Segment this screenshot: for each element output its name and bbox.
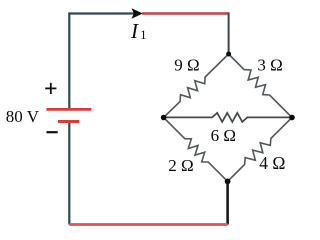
svg-text:4 Ω: 4 Ω [259, 153, 285, 173]
svg-text:9 Ω: 9 Ω [174, 55, 199, 74]
battery long plate (+) [46, 108, 91, 111]
battery - sign [47, 131, 58, 133]
svg-text:2 Ω: 2 Ω [168, 156, 193, 175]
wire top-left (from battery + up and right toward arrow) [69, 14, 136, 111]
resistor 9 ohm (left node to top node) [164, 54, 229, 118]
wire right vertical (top corner down to node A) [228, 12, 230, 54]
svg-text:80 V: 80 V [6, 107, 40, 126]
svg-text:1: 1 [140, 28, 146, 42]
resistor 3 ohm (top node to right node) [229, 54, 292, 118]
wire top-right red [142, 12, 229, 15]
battery + sign [45, 83, 56, 94]
node left (junction dot) [161, 115, 167, 121]
node bottom (junction dot) [225, 179, 231, 185]
svg-text:3 Ω: 3 Ω [257, 55, 282, 74]
svg-text:6 Ω: 6 Ω [211, 126, 236, 145]
wire left vertical lower (battery - down to bottom rail) [68, 121, 70, 225]
node top (junction dot) [226, 52, 231, 57]
current arrow I1 [132, 8, 143, 19]
resistor 4 ohm (bottom node to right node) [228, 118, 292, 182]
wire bottom vertical (bottom node down to bottom rail) [226, 181, 229, 224]
battery 80 V [46, 109, 91, 121]
battery short plate (-) [58, 120, 79, 123]
wire bottom red rail [69, 223, 227, 226]
node right (junction dot) [289, 115, 295, 121]
svg-text:I: I [130, 19, 139, 43]
resistor 2 ohm (left node to bottom node) [164, 118, 228, 182]
resistor 6 ohm (left node to right node, horizontal) [164, 113, 292, 122]
